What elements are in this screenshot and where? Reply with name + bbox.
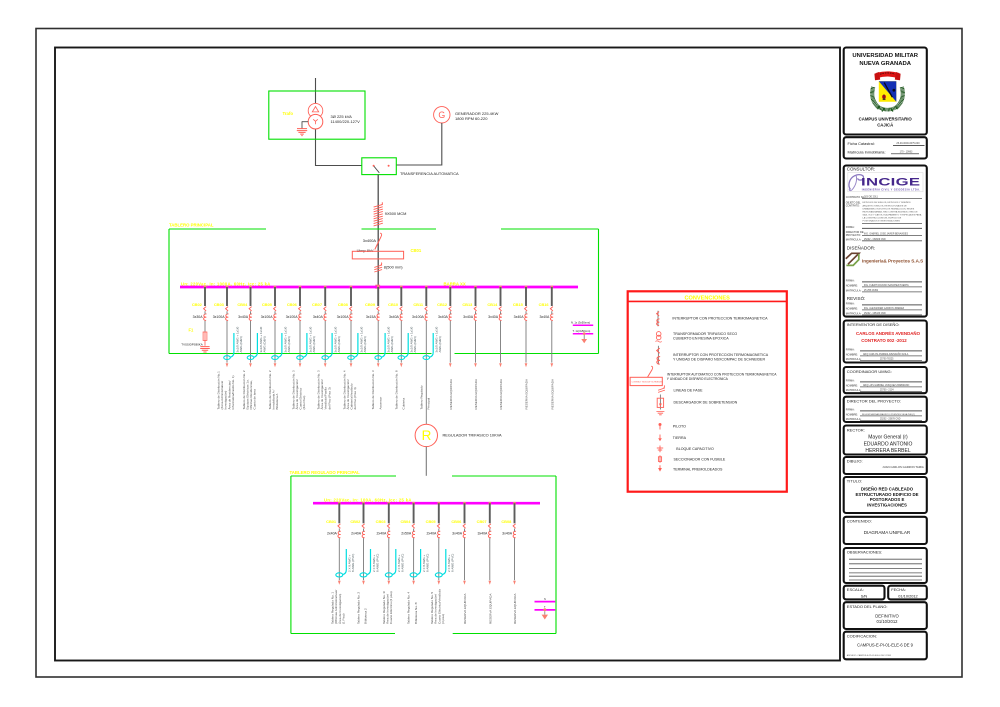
node bus junction CB16 (551, 286, 554, 289)
svg-text:INTERVENTOR DE DISEÑO:: INTERVENTOR DE DISEÑO: (847, 322, 900, 327)
legend text seccionador (674, 457, 726, 461)
titleblock observaciones box (844, 548, 927, 583)
svg-text:GENERADOR 225.4KW: GENERADOR 225.4KW (455, 111, 499, 116)
terminal arrow CB04 (249, 363, 252, 367)
node bus junction CB07 (324, 286, 327, 289)
svg-text:3x40A: 3x40A (238, 315, 249, 319)
node bus junction CB02 (204, 286, 207, 289)
breaker regulado CB08 rating value (502, 532, 513, 536)
bus regulado busbar (313, 502, 540, 505)
node bus junction CB12 (449, 286, 452, 289)
breaker regulado CB06 (463, 524, 466, 538)
wire transformer neutral to ground (302, 121, 308, 128)
legend text terminal premoldeado (673, 467, 723, 471)
svg-text:N. 1x (3x50mm): N. 1x (3x50mm) (571, 321, 590, 325)
terminal arrow regulado CB08 (513, 581, 516, 585)
titleblock director label (847, 399, 901, 404)
wire incoming utility feed (315, 78, 317, 166)
breaker CB05 (274, 307, 277, 321)
legend box CONVENCIONES (628, 291, 787, 491)
titleblock consultor box (844, 166, 927, 317)
svg-text:Un: 220Vac, In: 1000A, 60H: Un: 220Vac, In: 1000A, 60Hz, Icc: 25 kA (181, 281, 271, 286)
svg-text:NUEVA GRANADA: NUEVA GRANADA (859, 61, 911, 67)
busbar regulado neutral N (535, 598, 556, 602)
svg-text:2x50A: 2x50A (401, 532, 412, 536)
transfer switch ATS contacts and blade (373, 165, 390, 173)
wire regulado feeder CB02 to load (363, 538, 365, 580)
breaker CB08 rating value (337, 315, 350, 319)
wire regulado feeder drop CB05 (438, 503, 440, 523)
titleblock reviso firma row (846, 301, 922, 305)
terminal arrow regulado CB07 (488, 581, 491, 585)
titleblock estado label (847, 604, 888, 609)
legend symbol lineas de fase (658, 385, 665, 392)
titleblock ficha catastral box (844, 137, 927, 158)
svg-text:BARRA XX: BARRA XX (444, 281, 466, 286)
breaker CB08 (350, 307, 353, 321)
wire regulado feeder drop CB01 (338, 503, 340, 523)
svg-text:REVISÓ:: REVISÓ: (847, 295, 866, 301)
titleblock dibujo label (847, 459, 863, 464)
svg-text:ING. FUERT DOVANO SANCHEZ PUER: ING. FUERT DOVANO SANCHEZ PUERTA (864, 284, 909, 287)
terminal arrow CB08 (350, 363, 353, 367)
svg-text:Cubierta: Cubierta (402, 398, 406, 410)
breaker CB16 label (539, 302, 550, 307)
svg-text:UNIVERSIDAD MILITAR: UNIVERSIDAD MILITAR (852, 53, 918, 59)
load label CB15 reserva (525, 378, 529, 409)
svg-text:CAJICÁ: CAJICÁ (877, 122, 893, 127)
svg-text:DIRECTOR DEL PROYECTO:: DIRECTOR DEL PROYECTO: (847, 399, 901, 404)
svg-text:3x100A: 3x100A (286, 315, 299, 319)
svg-text:S/N: S/N (861, 593, 868, 598)
svg-text:11400/220-127V: 11400/220-127V (331, 119, 361, 124)
breaker CB11 (425, 307, 428, 321)
titleblock titulo text (855, 486, 918, 507)
cable feeder CB06 conductor spec (308, 326, 316, 352)
terminal arrow regulado CB05 (437, 581, 440, 585)
svg-text:NOMBRE:: NOMBRE: (846, 412, 858, 416)
svg-text:POSTGRADOS E: POSTGRADOS E (870, 497, 905, 502)
fuse F1 label (189, 328, 195, 333)
busbar neutral N (573, 324, 593, 326)
titleblock interventor name red (856, 331, 921, 343)
svg-text:3x40A: 3x40A (438, 315, 449, 319)
node bus junction CB08 (350, 286, 353, 289)
load label CB07 (316, 370, 331, 409)
wire feeder CB13 to load (475, 321, 477, 363)
svg-text:F1: F1 (189, 328, 195, 333)
svg-text:R: R (422, 428, 432, 443)
svg-text:POSTGRADOS E INVESTIGACIONES: POSTGRADOS E INVESTIGACIONES (863, 220, 901, 223)
titleblock interventor label (847, 322, 900, 327)
svg-text:MATRICULA:: MATRICULA: (846, 311, 862, 315)
terminal arrow CB09 (377, 363, 380, 367)
svg-text:CB03: CB03 (214, 302, 225, 307)
node regulado bus junction CB06 (463, 502, 466, 505)
load label CB14 reserva (499, 378, 503, 409)
titleblock university box (844, 48, 927, 135)
titleblock consultor matricula row (846, 237, 922, 241)
legend text bloque capacitivo (676, 447, 714, 451)
svg-text:CARLOS ANDRÉS AVENDAÑO: CARLOS ANDRÉS AVENDAÑO (856, 331, 921, 336)
svg-text:COORDINADOR UMNG:: COORDINADOR UMNG: (847, 369, 892, 374)
svg-text:FIRMA:: FIRMA: (846, 407, 855, 411)
wire feeder drop CB09 (377, 287, 379, 306)
ground TVSS earth (200, 347, 210, 352)
svg-text:AWG (D&N): AWG (D&N) (312, 336, 316, 352)
cable regulado feeder CB04 conduit symbol (410, 549, 421, 577)
svg-text:MATRICULA:: MATRICULA: (846, 357, 862, 361)
terminal arrow regulado CB02 (362, 581, 365, 585)
svg-text:AWG (D&N): AWG (D&N) (363, 336, 367, 352)
wire feeder drop CB04 (250, 287, 252, 306)
cable feeder CB11 conduit symbol (423, 333, 433, 360)
svg-text:AWG (D&N): AWG (D&N) (337, 336, 341, 352)
wire feeder drop CB10 (400, 287, 402, 306)
legend symbol interruptor automatico trip box (630, 366, 663, 385)
svg-text:TRANSFERENCIA AUTOMATICA: TRANSFERENCIA AUTOMATICA (400, 171, 459, 176)
titleblock coordinador nombre row (846, 383, 922, 387)
breaker regulado CB05 rating value (426, 532, 437, 536)
wire regulado feeder drop CB06 (464, 503, 466, 523)
wire feeder drop CB16 (551, 287, 553, 306)
svg-text:Mayor General (r): Mayor General (r) (868, 435, 908, 441)
terminal arrow regulado ground bar (542, 611, 548, 619)
breaker regulado CB02 (362, 524, 365, 538)
breaker regulado CB01 rating value (327, 532, 338, 536)
titleblock contenido text (864, 530, 911, 535)
svg-text:8 AWG (PVC): 8 AWG (PVC) (351, 554, 355, 572)
svg-text:OBSERVACIONES:: OBSERVACIONES: (847, 549, 882, 554)
breaker CB14 label (487, 302, 498, 307)
svg-text:ESTADO DEL PLANO:: ESTADO DEL PLANO: (847, 604, 888, 609)
node bus junction CB15 (525, 286, 528, 289)
svg-text:CB11: CB11 (413, 302, 424, 307)
svg-text:FIRMA:: FIRMA: (846, 347, 855, 351)
svg-text:3x40A: 3x40A (463, 315, 474, 319)
svg-text:ESCALA:: ESCALA: (847, 587, 864, 592)
load label regulado CB01 (331, 590, 346, 624)
svg-text:Cuarto de área: Cuarto de área (253, 389, 257, 410)
breaker CB14 (499, 307, 502, 321)
breaker CB09 rating value (366, 315, 377, 319)
breaker regulado CB04 rating value (401, 532, 412, 536)
load label CB12 reserva (449, 378, 453, 409)
svg-text:AWG (D&N): AWG (D&N) (390, 336, 394, 352)
legend text interruptor automatico (667, 372, 777, 380)
cable feeder CB04 conductor spec (259, 326, 267, 352)
breaker CB12 label (437, 302, 448, 307)
titleblock codificacion box (844, 632, 927, 660)
load label CB10 (394, 370, 405, 409)
terminal arrow regulado CB04 (412, 581, 415, 585)
breaker CB02 label (192, 302, 203, 307)
breaker regulado CB01 (338, 524, 341, 538)
titleblock estado box (844, 602, 927, 629)
svg-text:SECCIONADOR CON FUSIBLE: SECCIONADOR CON FUSIBLE (674, 457, 726, 461)
breaker CB09 (377, 307, 380, 321)
cable regulado feeder CB03 conduit symbol (385, 549, 396, 577)
svg-text:CB06: CB06 (451, 519, 462, 524)
svg-text:Biblioteca A: Biblioteca A (275, 393, 279, 410)
svg-text:DISEÑO RED CABLEADO: DISEÑO RED CABLEADO (861, 486, 914, 491)
titleblock dibujo box (844, 457, 927, 474)
terminal arrow regulado CB01 (338, 581, 341, 585)
svg-text:Informática/Pasillo No. 1): Informática/Pasillo No. 1) (231, 375, 235, 409)
svg-text:3x100A: 3x100A (337, 315, 350, 319)
wire regulado feeder drop CB04 (413, 503, 415, 523)
node CB01 label (411, 248, 422, 253)
generator G1 (434, 107, 450, 123)
main breaker CB01 rating 3x400A (357, 238, 377, 253)
svg-text:Tablero Regulado No. 4: Tablero Regulado No. 4 (407, 592, 411, 624)
legend symbol bloque capacitivo (657, 446, 663, 453)
wire transformer to transfer switch (316, 165, 363, 167)
svg-text:01/10/2012: 01/10/2012 (898, 593, 917, 598)
svg-text:2x40A: 2x40A (376, 532, 387, 536)
svg-text:CAMPUS UNIVERSITARIO: CAMPUS UNIVERSITARIO (859, 117, 913, 122)
svg-text:T. 1x(3x50mm): T. 1x(3x50mm) (573, 329, 591, 333)
svg-text:URBANISMO, ELECTRICOS HIDRAULI: URBANISMO, ELECTRICOS HIDRAULICOS, REDES (863, 207, 915, 210)
breaker CB10 rating value (389, 315, 400, 319)
cable regulado feeder CB02 conduit symbol (360, 549, 371, 577)
svg-text:PILOTO: PILOTO (673, 424, 686, 428)
load label CB13 reserva (474, 378, 478, 409)
svg-text:3x30A: 3x30A (193, 315, 204, 319)
titleblock rector box (844, 426, 927, 455)
svg-text:CB02: CB02 (192, 302, 203, 307)
node main feed bus junction (375, 285, 380, 289)
logo university crest (872, 71, 903, 111)
svg-text:RESERVA EQUIPADA: RESERVA EQUIPADA (463, 593, 467, 624)
legend text interruptor nsxcompac (673, 353, 769, 361)
titleblock campus name (859, 117, 913, 128)
svg-text:del Piso (Piso 3): del Piso (Piso 3) (327, 387, 331, 409)
node regulado bus junction CB02 (362, 502, 365, 505)
terminal arrow CB07 (324, 363, 327, 367)
load label CB04 (242, 370, 257, 409)
svg-text:RESERVA EQUIPADA: RESERVA EQUIPADA (488, 593, 492, 624)
svg-text:Y UNIDAD DE DISPARO ELECTRONIC: Y UNIDAD DE DISPARO ELECTRONICA (667, 377, 729, 381)
breaker regulado CB05 label (426, 519, 437, 524)
wire feeder drop CB14 (500, 287, 502, 306)
titleblock disenador nombre row (846, 283, 922, 287)
breaker CB11 rating value (412, 315, 425, 319)
svg-text:CB01: CB01 (411, 248, 422, 253)
bus BARRA XX rating label (181, 281, 271, 286)
wire feeder CB06 to load (299, 321, 301, 363)
breaker CB13 (474, 307, 477, 321)
node bus junction CB11 (425, 286, 428, 289)
svg-text:3x40A: 3x40A (477, 532, 488, 536)
svg-text:Uimp 8kV: Uimp 8kV (357, 248, 374, 253)
svg-text:(2do Piso): (2do Piso) (302, 396, 306, 410)
titleblock rector name (864, 435, 913, 455)
breaker CB15 (525, 307, 528, 321)
panel TABLERO PRINCIPAL label (169, 222, 214, 227)
titleblock consultor director row (846, 230, 922, 237)
titleblock rector label (847, 427, 865, 432)
wire feeder drop CB03 (226, 287, 228, 306)
svg-text:Tablero de Distribución No. 8: Tablero de Distribución No. 8 (394, 370, 398, 409)
breaker CB04 (249, 307, 252, 321)
titleblock contenido box (844, 517, 927, 544)
svg-text:TITULO:: TITULO: (847, 479, 862, 484)
svg-text:CB07: CB07 (312, 302, 322, 307)
breaker CB07 label (312, 302, 322, 307)
titleblock university name (852, 53, 918, 67)
wire feeder CB10 to load (400, 321, 402, 363)
titleblock interventor matricula row (846, 357, 922, 361)
node regulado ground bar junction (543, 608, 546, 611)
breaker regulado CB04 (412, 524, 415, 538)
svg-text:CONTRATO:: CONTRATO: (846, 204, 860, 207)
cable feeder CB03 conduit symbol (224, 333, 234, 360)
svg-text:AWG (D&N): AWG (D&N) (239, 336, 243, 352)
svg-text:CB04: CB04 (237, 302, 248, 307)
wire feeder drop CB02 (204, 287, 206, 306)
cable feeder CB10 conduit symbol (398, 333, 408, 360)
svg-text:9X500 MCM: 9X500 MCM (385, 211, 407, 216)
cable regulado feeder CB01 conductor spec (348, 554, 356, 572)
wire regulado feeder CB08 to load (514, 538, 516, 580)
wire feeder drop CB05 (274, 287, 276, 306)
svg-text:MATRICULA:: MATRICULA: (846, 388, 862, 392)
breaker CB06 label (287, 302, 298, 307)
breaker regulado CB07 rating value (477, 532, 488, 536)
logo INCIGE (848, 173, 923, 192)
svg-text:170 - 10963: 170 - 10963 (900, 151, 913, 154)
titleblock disenador label (847, 244, 876, 250)
breaker regulado CB02 rating value (351, 532, 362, 536)
regulator R1 (415, 424, 437, 446)
titleblock coordinador box (844, 367, 927, 393)
svg-text:CONVENCIONES: CONVENCIONES (685, 295, 731, 301)
node bus junction CB10 (400, 286, 403, 289)
titleblock interventor firma row (846, 347, 922, 351)
cable feeder CB03 conductor spec (235, 326, 243, 352)
svg-text:CB02: CB02 (350, 519, 361, 524)
load label CB09 (371, 370, 382, 409)
svg-text:CB09: CB09 (365, 302, 376, 307)
svg-text:AWG (D&N): AWG (D&N) (262, 336, 266, 352)
svg-text:8 AWG (PVC): 8 AWG (PVC) (401, 554, 405, 572)
transformer T1 (308, 103, 323, 129)
svg-text:FIRMA:: FIRMA: (846, 378, 855, 382)
busbar regulado ground T (535, 606, 556, 610)
cable feeder CB06 conduit symbol (297, 333, 307, 360)
main breaker CB01 blade (375, 233, 382, 249)
svg-text:COMPACT NSX160F SCHNEIDER: COMPACT NSX160F SCHNEIDER (632, 381, 664, 384)
titleblock coordinador label (847, 369, 892, 374)
breaker CB05 rating value (261, 315, 274, 319)
wire feeder CB04 to load (250, 321, 252, 363)
svg-text:del Piso (Piso 4): del Piso (Piso 4) (353, 387, 357, 409)
terminal arrow CB03 (226, 363, 229, 367)
terminal arrow regulado CB03 (387, 581, 390, 585)
titleblock codificacion archivo (847, 654, 892, 657)
svg-text:NOMBRE:: NOMBRE: (846, 283, 858, 287)
svg-text:DESCARGADOR DE SOBRETENSION: DESCARGADOR DE SOBRETENSION (674, 401, 738, 405)
svg-text:1800 RPM 60-220: 1800 RPM 60-220 (455, 116, 488, 121)
wire feeder drop CB08 (350, 287, 352, 306)
panel TABLERO PRINCIPAL enclosure (169, 229, 599, 354)
svg-text:Tablero de Distribución No. 3: Tablero de Distribución No. 3 (371, 370, 375, 409)
svg-text:3x40A: 3x40A (488, 315, 499, 319)
wire feeder CB15 to load (525, 321, 527, 363)
wire feeder CB16 to load (551, 321, 553, 363)
svg-text:NOMBRE:: NOMBRE: (846, 352, 858, 356)
svg-text:3x100A: 3x100A (261, 315, 274, 319)
cable feeder CB10 conductor spec (410, 326, 418, 352)
wire regulado feeder drop CB07 (489, 503, 491, 523)
svg-text:AWG (D&N): AWG (D&N) (287, 336, 291, 352)
svg-text:(1 Piso): (1 Piso) (341, 614, 345, 625)
transformer enclosure box (269, 91, 365, 139)
svg-text:ING. GABRIEL JOSE JAVIER BENAV: ING. GABRIEL JOSE JAVIER BENAVIDES (864, 232, 908, 235)
cable regulado feeder CB05 conduit symbol (435, 549, 446, 577)
wire ATS output to main breaker (377, 175, 379, 288)
node bus junction CB05 (274, 286, 277, 289)
cable bus link marker (374, 263, 382, 272)
svg-text:TIERRA: TIERRA (673, 436, 687, 440)
titleblock director box (844, 397, 927, 422)
svg-text:Biblioteca No. B: Biblioteca No. B (414, 602, 418, 624)
titleblock coordinador firma row (846, 378, 922, 382)
wire regulado feeder CB04 to load (413, 538, 415, 580)
svg-text:Tablero Regulado: Tablero Regulado (419, 385, 423, 409)
svg-text:CB15: CB15 (513, 302, 524, 307)
svg-text:INVESTIGACIONES: INVESTIGACIONES (867, 503, 907, 508)
cable bus link value (384, 265, 404, 270)
titleblock matricula row (848, 150, 920, 155)
bus regulado rating label (324, 498, 412, 503)
terminal arrow CB10 (400, 363, 403, 367)
svg-text:CB14: CB14 (487, 302, 498, 307)
transformer T1 label Trafo (283, 111, 294, 116)
titleblock observaciones label (847, 549, 882, 554)
titleblock ficha catastral row (848, 141, 925, 146)
cable feeder CB08 conduit symbol (348, 333, 358, 360)
titleblock escala box (844, 586, 885, 600)
titleblock estado text (875, 614, 899, 625)
breaker CB08 label (338, 302, 349, 307)
wire feeder CB09 to load (377, 321, 379, 363)
svg-text:GAS, VOZ Y DATOS, EQUIPAMENTO: GAS, VOZ Y DATOS, EQUIPAMENTO Y ESPECIAL… (863, 213, 922, 216)
legend symbol piloto (659, 423, 662, 430)
svg-text:LA CONSTRUCCION DEL EDIFICIO D: LA CONSTRUCCION DEL EDIFICIO DE (863, 216, 902, 219)
wire feeder CB08 to load (350, 321, 352, 363)
svg-text:Y UNIDAD DE DISPARO NSXCOM: Y UNIDAD DE DISPARO NSXCOMPAC DE SCHNEID… (673, 358, 765, 362)
svg-text:2x40A: 2x40A (327, 532, 338, 536)
breaker regulado CB01 label (326, 519, 337, 524)
svg-text:ARQUITECTONICOS, ESTRUCTURALES: ARQUITECTONICOS, ESTRUCTURALES DE (863, 204, 908, 207)
svg-text:ARQ CARLOS ANDRES AVENDAÑO AVI: ARQ CARLOS ANDRES AVENDAÑO AVILA (863, 353, 909, 356)
titleblock disenador matricula row (846, 288, 922, 292)
svg-text:RESERVA EQUIPADA: RESERVA EQUIPADA (449, 378, 453, 409)
terminal arrow CB05 (274, 363, 277, 367)
legend symbol descargador sobretension (656, 395, 664, 415)
svg-text:Un: 220Vac, In: 100A, 60Hz: Un: 220Vac, In: 100A, 60Hz, Icc: 25 kA (324, 498, 412, 503)
breaker regulado CB03 rating value (376, 532, 387, 536)
svg-text:01/10/2012: 01/10/2012 (877, 619, 899, 624)
svg-text:Tablero Regulado No. 2: Tablero Regulado No. 2 (357, 592, 361, 624)
svg-text:INCIGE: INCIGE (861, 175, 920, 187)
node bus junction CB09 (377, 286, 380, 289)
titleblock consultor firma row (846, 225, 922, 229)
svg-text:CB06: CB06 (287, 302, 298, 307)
main breaker CB01 trip unit box (352, 251, 403, 259)
